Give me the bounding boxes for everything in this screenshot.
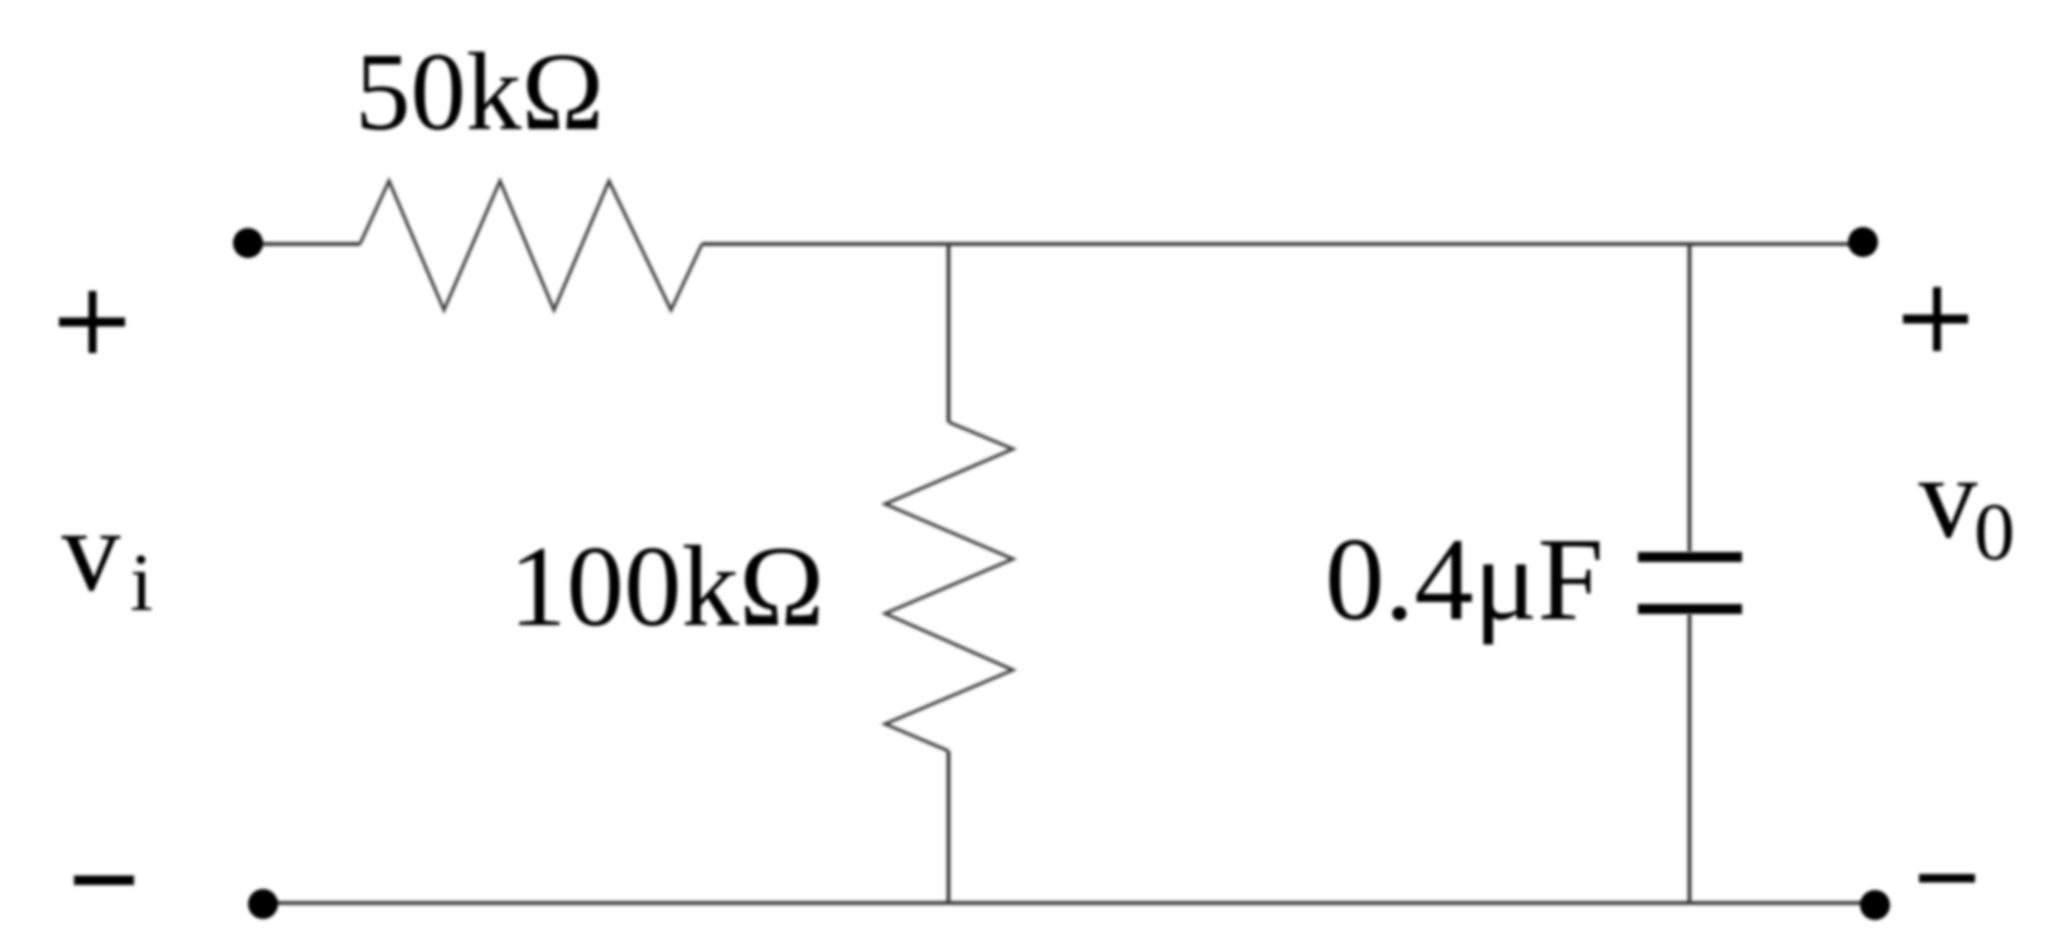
svg-text:0: 0 bbox=[1974, 486, 2015, 577]
svg-text:i: i bbox=[130, 536, 153, 628]
resistor R2 100k zigzag bbox=[885, 422, 1013, 751]
wire bbox=[947, 751, 951, 903]
minus sign (output) bbox=[1919, 874, 1975, 883]
capacitor C1 bottom plate bbox=[1638, 604, 1742, 614]
svg-text:v: v bbox=[1919, 432, 1978, 563]
svg-text:100kΩ: 100kΩ bbox=[509, 523, 824, 650]
node: output + terminal bbox=[1848, 227, 1878, 257]
svg-text:50kΩ: 50kΩ bbox=[355, 31, 604, 154]
wire bbox=[947, 244, 951, 422]
wire bbox=[263, 901, 1875, 905]
resistor R1 50k zigzag bbox=[360, 181, 702, 310]
wire bbox=[248, 242, 360, 246]
svg-text:v: v bbox=[62, 485, 121, 616]
wire bbox=[1688, 244, 1692, 552]
minus sign (input) bbox=[74, 876, 134, 886]
svg-text:0.4μF: 0.4μF bbox=[1325, 513, 1604, 645]
capacitor C1 top plate bbox=[1638, 552, 1742, 562]
wire bbox=[1688, 614, 1692, 903]
node: input - terminal bbox=[248, 889, 278, 919]
wire bbox=[702, 242, 1863, 246]
plus sign (input) bbox=[59, 291, 125, 353]
node: output - terminal bbox=[1860, 890, 1890, 920]
plus sign (output) bbox=[1903, 287, 1968, 351]
node: input + terminal bbox=[233, 228, 263, 258]
